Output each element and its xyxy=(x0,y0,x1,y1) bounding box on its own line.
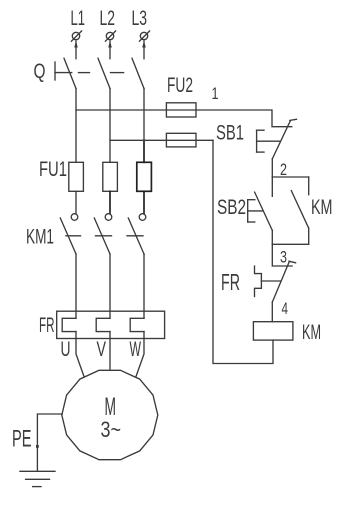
wire FR contact to node 4 xyxy=(271,302,273,322)
svg-text:FR: FR xyxy=(39,314,55,337)
wire KM1 to FR heaters phase1 xyxy=(75,254,77,318)
svg-text:SB1: SB1 xyxy=(216,122,244,145)
wire L2 switch to fuse xyxy=(109,89,111,163)
wire KM aux to node 3 xyxy=(272,243,308,245)
svg-text:U: U xyxy=(61,338,71,361)
contactor KM1 main contacts xyxy=(26,214,146,254)
svg-text:Q: Q xyxy=(34,60,46,83)
fuse FU1 phase2 xyxy=(103,162,118,191)
svg-text:FU2: FU2 xyxy=(167,74,193,97)
wire fuse1 to KM1 contact xyxy=(75,191,77,213)
motor M 3~ xyxy=(62,370,158,459)
svg-text:SB2: SB2 xyxy=(217,196,246,219)
wire fuse3 to KM1 contact xyxy=(143,191,145,213)
svg-text:1: 1 xyxy=(212,84,219,103)
wire L1 switch to fuse xyxy=(75,89,77,163)
wire W to motor xyxy=(136,332,144,377)
wire L2 drop to switch xyxy=(109,41,111,59)
svg-text:V: V xyxy=(97,338,107,361)
thermal overload relay FR heater box xyxy=(39,311,165,338)
fuse FU1 phase3 xyxy=(137,162,152,191)
thermal relay contact FR (NC) xyxy=(221,261,296,302)
wire L3 drop to switch xyxy=(143,41,145,59)
wire control tap phase 2 to FU2b xyxy=(110,139,213,141)
fuse FU2 (lower) xyxy=(166,133,196,147)
FR heater element phase1 xyxy=(62,318,76,331)
wire L3 switch to fuse xyxy=(143,89,145,141)
svg-text:3~: 3~ xyxy=(101,417,122,442)
wire control tap phase 1 to FU2a xyxy=(76,109,271,111)
svg-text:W: W xyxy=(130,338,142,361)
contact KM auxiliary (NO holding) xyxy=(291,177,332,244)
PE conductor xyxy=(12,414,62,471)
wire KM1 to FR heaters phase3 xyxy=(143,254,145,318)
phase terminal L3 xyxy=(132,7,150,48)
wire KM1 to FR heaters phase2 xyxy=(109,254,111,318)
svg-text:KM: KM xyxy=(302,321,321,344)
svg-text:PE: PE xyxy=(12,426,32,453)
svg-text:L2: L2 xyxy=(100,7,116,30)
wire node2 branch xyxy=(272,176,308,178)
FR heater element phase3 xyxy=(130,318,144,331)
fuse FU2 (upper) xyxy=(166,74,196,117)
svg-text:2: 2 xyxy=(280,160,287,179)
svg-text:4: 4 xyxy=(282,299,289,318)
ground symbol xyxy=(20,471,55,486)
phase terminal L2 xyxy=(100,7,116,48)
svg-text:FU1: FU1 xyxy=(39,158,67,181)
wire U to motor xyxy=(76,332,84,377)
pushbutton SB1 (NC stop) xyxy=(216,119,297,159)
svg-text:L1: L1 xyxy=(71,7,86,30)
wire node1 corner down to SB1 xyxy=(272,110,292,127)
svg-text:KM1: KM1 xyxy=(26,226,54,249)
FR heater element phase2 xyxy=(96,318,110,331)
wire fuse2 to KM1 contact xyxy=(109,191,111,213)
disconnect switch Q xyxy=(34,58,145,88)
wire node3 down to FR contact xyxy=(272,244,292,266)
svg-text:3: 3 xyxy=(280,248,287,267)
svg-text:FR: FR xyxy=(221,269,240,295)
wire coil return xyxy=(213,140,273,363)
wire SB1 to node 2 xyxy=(271,159,273,177)
svg-text:L3: L3 xyxy=(132,7,148,30)
svg-text:KM: KM xyxy=(311,196,333,219)
pushbutton SB2 (NO start) xyxy=(217,177,272,244)
fuse FU1 phase1 xyxy=(69,162,84,191)
phase terminal L1 xyxy=(71,7,86,48)
coil KM xyxy=(253,321,321,344)
wire V to motor xyxy=(109,332,111,369)
wire L1 drop to switch xyxy=(75,41,77,59)
